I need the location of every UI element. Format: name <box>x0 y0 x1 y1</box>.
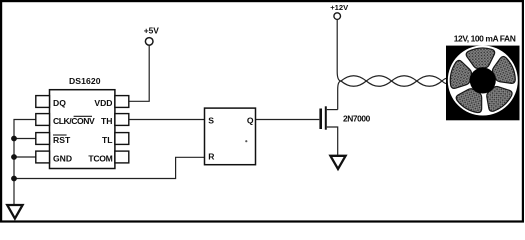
svg-text:Q: Q <box>247 116 254 126</box>
svg-text:RST: RST <box>53 135 71 145</box>
svg-text:2N7000: 2N7000 <box>343 114 371 124</box>
svg-text:CLK/CONV: CLK/CONV <box>53 116 95 126</box>
svg-text:+12V: +12V <box>330 3 349 12</box>
svg-text:DQ: DQ <box>53 98 66 108</box>
svg-text:DS1620: DS1620 <box>69 76 101 86</box>
svg-text:S: S <box>208 116 214 126</box>
svg-text:12V, 100 mA FAN: 12V, 100 mA FAN <box>454 34 516 44</box>
svg-text:R: R <box>208 152 215 162</box>
svg-text:+5V: +5V <box>144 26 160 36</box>
svg-text:GND: GND <box>53 153 72 163</box>
svg-text:VDD: VDD <box>94 98 112 108</box>
svg-text:TL: TL <box>102 135 113 145</box>
svg-text:TCOM: TCOM <box>88 153 112 163</box>
svg-text:TH: TH <box>101 116 112 126</box>
